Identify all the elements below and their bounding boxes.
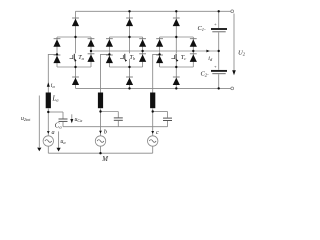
wire: bridge a bottom bar — [57, 66, 91, 68]
junction dots bottom rail — [128, 87, 130, 89]
wire: neutral bus M — [48, 152, 152, 154]
transistor Tb — [120, 53, 130, 61]
junction dots bridge tops — [74, 36, 76, 38]
wire: bridge c right branch — [192, 37, 194, 67]
diode D5 bottom phase b — [126, 77, 133, 85]
junction dots at node letters — [47, 131, 50, 134]
wire: phase a leg centre vertical — [75, 11, 77, 88]
diode bridge a lower-left — [53, 55, 60, 63]
wire: capacitor star bus — [63, 126, 168, 128]
wire: bridge b bottom bar — [109, 66, 142, 68]
svg-text:U2: U2 — [238, 49, 246, 56]
wire: source a to neutral bus — [47, 147, 49, 154]
current arrow ia — [47, 82, 50, 87]
wire: bridge c left branch — [159, 37, 161, 67]
current arrow id on midpoint bus — [206, 50, 209, 53]
svg-text:a: a — [52, 129, 55, 136]
diode D3 top phase c — [173, 18, 180, 26]
capacitor Ca branch — [48, 112, 67, 127]
diode bridge c lower-left — [156, 55, 163, 63]
capacitor C1 — [211, 11, 227, 70]
AC source ua — [43, 136, 53, 146]
wire: bridge a top bar — [57, 36, 91, 38]
wire: source c to neutral bus — [152, 147, 154, 154]
transistor Tc — [171, 53, 178, 61]
voltage arrow uCa — [70, 114, 73, 123]
wire: positive DC top rail — [76, 10, 231, 12]
wire: phase a input jog — [48, 54, 57, 93]
wire: midpoint bus to capacitor centre — [91, 50, 219, 52]
diode bridge c upper-right — [190, 39, 197, 47]
svg-text:C2-: C2- — [201, 70, 210, 77]
inductor Lb — [98, 93, 103, 109]
diode bridge b upper-left — [106, 39, 113, 47]
junction dots top rail — [128, 10, 130, 12]
svg-text:M: M — [101, 156, 108, 163]
svg-text:+: + — [214, 22, 217, 27]
wire: phase c leg centre vertical — [175, 11, 177, 88]
svg-text:b: b — [104, 129, 107, 136]
svg-text:+: + — [214, 64, 217, 69]
wire: bridge a left branch — [56, 37, 58, 67]
wire: phase a below inductor to source — [47, 109, 49, 136]
junction dots phase nodes — [47, 111, 49, 113]
wire: negative DC bottom rail — [76, 87, 231, 89]
diode D2 top phase b — [126, 18, 133, 26]
wire: phase b input jog — [101, 54, 110, 93]
wire: phase b leg centre vertical — [129, 11, 131, 88]
transistor Ta — [70, 53, 77, 61]
wire: bridge c bottom bar — [160, 66, 194, 68]
wire: source b to neutral bus — [100, 147, 102, 154]
terminal circle bottom — [231, 87, 234, 90]
wire: bridge a right branch — [90, 37, 92, 67]
junction dots midpoint bus — [90, 50, 92, 52]
diode bridge c upper-left — [156, 39, 163, 47]
diode bridge a upper-right — [87, 39, 94, 47]
diode bridge b lower-right — [139, 54, 146, 62]
svg-text:ua: ua — [60, 139, 66, 145]
inductor Lc — [150, 93, 155, 109]
svg-text:uCa: uCa — [75, 117, 83, 123]
capacitor C2 — [211, 64, 227, 88]
junction dots bridge left mids — [56, 53, 58, 55]
junction dots bridge bottoms — [74, 66, 76, 68]
wire: phase c below inductor to source — [152, 109, 154, 136]
svg-text:La: La — [52, 96, 60, 103]
wire: bridge b top bar — [109, 36, 142, 38]
diode bridge c lower-right — [190, 54, 197, 62]
svg-text:C1-: C1- — [198, 25, 207, 32]
terminal circle top — [231, 10, 234, 13]
diode bridge b lower-left — [106, 55, 113, 63]
wire: bridge c top bar — [160, 36, 194, 38]
AC source uc — [148, 136, 158, 146]
capacitor Cc branch — [153, 112, 172, 127]
wire: phase c input jog — [153, 54, 160, 93]
wire: bridge b left branch — [108, 37, 110, 67]
AC source ub — [95, 136, 105, 146]
voltage arrow U2 — [232, 14, 236, 76]
diode bridge b upper-right — [139, 39, 146, 47]
junction dot neutral bus — [99, 152, 101, 154]
svg-text:c: c — [156, 129, 159, 136]
voltage arrow u2tot — [37, 96, 41, 152]
diode D6 bottom phase c — [173, 77, 180, 85]
wire: bridge b right branch — [142, 37, 144, 67]
wire: phase b below inductor to source — [100, 109, 102, 136]
diode D4 bottom phase a — [72, 77, 79, 85]
svg-text:Ca: Ca — [55, 123, 63, 130]
capacitor Cb branch — [101, 112, 123, 127]
inductor La — [46, 93, 51, 109]
svg-text:Tb: Tb — [130, 54, 136, 61]
diode D1 top phase a — [72, 18, 79, 26]
diode bridge a lower-right — [87, 54, 94, 62]
diode bridge a upper-left — [53, 39, 60, 47]
svg-text:Ta: Ta — [78, 54, 84, 61]
svg-text:Tc: Tc — [181, 54, 186, 61]
voltage arrow ua — [57, 131, 61, 151]
svg-text:u2tot: u2tot — [21, 116, 31, 122]
